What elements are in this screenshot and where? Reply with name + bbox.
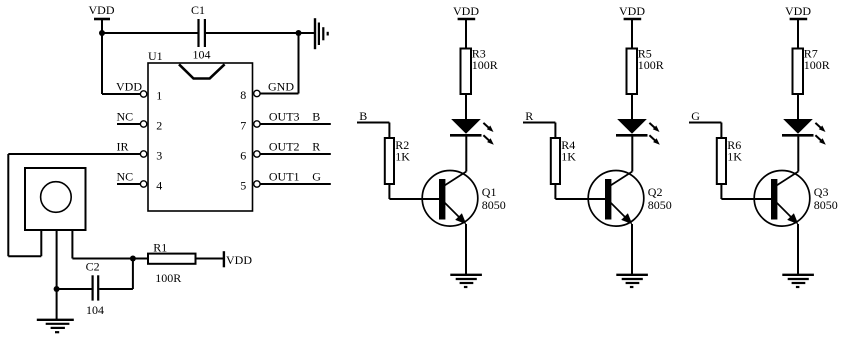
svg-text:Q3: Q3 xyxy=(814,185,829,199)
svg-text:8050: 8050 xyxy=(814,198,838,212)
svg-text:6: 6 xyxy=(240,148,246,162)
svg-text:7: 7 xyxy=(240,118,246,132)
svg-text:1K: 1K xyxy=(727,149,742,163)
svg-text:Q2: Q2 xyxy=(648,185,663,199)
svg-text:B: B xyxy=(312,110,320,124)
svg-text:1: 1 xyxy=(156,88,162,102)
svg-text:104: 104 xyxy=(86,303,104,317)
svg-text:VDD: VDD xyxy=(453,4,479,18)
svg-text:100R: 100R xyxy=(155,271,181,285)
svg-text:NC: NC xyxy=(117,170,134,184)
svg-text:8: 8 xyxy=(240,88,246,102)
svg-text:OUT2: OUT2 xyxy=(269,140,300,154)
svg-text:NC: NC xyxy=(117,110,134,124)
svg-text:R: R xyxy=(312,140,320,154)
svg-text:B: B xyxy=(359,109,367,123)
svg-text:C2: C2 xyxy=(86,260,100,274)
svg-text:1K: 1K xyxy=(561,149,576,163)
svg-text:4: 4 xyxy=(156,178,162,192)
svg-text:1K: 1K xyxy=(395,149,410,163)
svg-text:IR: IR xyxy=(117,140,129,154)
svg-text:100R: 100R xyxy=(638,58,664,72)
svg-text:100R: 100R xyxy=(472,58,498,72)
svg-text:VDD: VDD xyxy=(619,4,645,18)
svg-text:2: 2 xyxy=(156,118,162,132)
svg-text:U1: U1 xyxy=(148,49,163,63)
svg-text:VDD: VDD xyxy=(226,253,252,267)
svg-text:R1: R1 xyxy=(153,240,167,254)
svg-text:8050: 8050 xyxy=(482,198,506,212)
svg-text:5: 5 xyxy=(240,178,246,192)
svg-text:G: G xyxy=(691,109,700,123)
svg-text:OUT1: OUT1 xyxy=(269,170,300,184)
svg-text:VDD: VDD xyxy=(89,3,115,17)
svg-text:Q1: Q1 xyxy=(482,185,497,199)
svg-text:R: R xyxy=(525,109,533,123)
svg-text:VDD: VDD xyxy=(785,4,811,18)
svg-text:OUT3: OUT3 xyxy=(269,110,300,124)
svg-text:C1: C1 xyxy=(191,3,205,17)
svg-text:VDD: VDD xyxy=(116,80,142,94)
svg-text:3: 3 xyxy=(156,148,162,162)
svg-text:GND: GND xyxy=(268,80,294,94)
svg-text:G: G xyxy=(312,170,321,184)
svg-text:104: 104 xyxy=(193,48,211,62)
svg-text:100R: 100R xyxy=(804,58,830,72)
svg-text:8050: 8050 xyxy=(648,198,672,212)
